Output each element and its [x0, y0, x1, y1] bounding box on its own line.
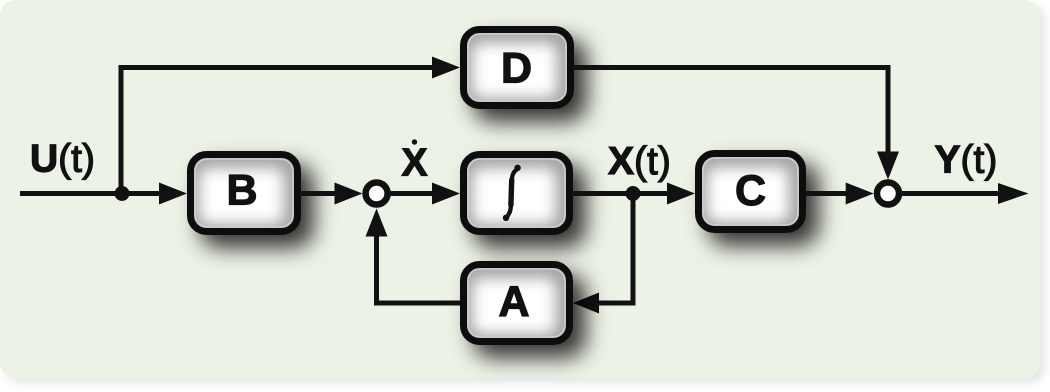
wire: B to sum1	[301, 191, 338, 196]
arrowhead into D	[432, 57, 460, 79]
block integrator	[464, 155, 570, 232]
arrowhead into integrator	[432, 183, 460, 205]
wire: A out left then up to sum1	[377, 236, 461, 303]
arrowhead into B	[159, 183, 187, 205]
node: X(t) junction dot	[626, 186, 641, 201]
wire: sum2 to output	[902, 191, 1003, 196]
wire: D to sum2 (right then down)	[574, 68, 888, 153]
summing junction S1	[366, 183, 388, 205]
summing junction S2	[877, 183, 899, 205]
svg-text:A: A	[498, 278, 529, 326]
wire: integrator to C	[572, 191, 671, 196]
block A	[464, 265, 570, 342]
arrowhead left into A	[573, 293, 599, 314]
block D	[464, 30, 571, 106]
wire: branch up from input node to D row	[119, 68, 124, 194]
svg-text:U(t): U(t)	[30, 138, 95, 181]
node: input junction dot	[115, 186, 130, 201]
arrowhead into sum2 from C	[846, 183, 874, 205]
wire: input line U(t)	[20, 191, 166, 196]
arrowhead into sum1 from B	[335, 183, 363, 205]
svg-text:X: X	[402, 142, 428, 185]
wire: top feed to D	[119, 65, 437, 70]
block B	[191, 155, 298, 232]
svg-text:B: B	[226, 167, 257, 215]
svg-text:X(t): X(t)	[608, 140, 671, 183]
wire: X(t) node down and left to A	[598, 194, 633, 304]
wire: sum1 to integrator	[390, 191, 436, 196]
label integral sign	[503, 165, 521, 221]
wire: C to sum2	[806, 191, 849, 196]
svg-text:Y(t): Y(t)	[935, 138, 998, 181]
arrowhead into C	[667, 183, 695, 205]
arrowhead up into sum1	[366, 209, 388, 237]
arrowhead output Y(t)	[998, 183, 1029, 204]
arrowhead down into sum2	[877, 152, 899, 180]
block C	[699, 154, 803, 230]
svg-text:D: D	[501, 45, 532, 93]
dot of Xdot	[412, 139, 417, 144]
svg-text:C: C	[735, 167, 766, 215]
